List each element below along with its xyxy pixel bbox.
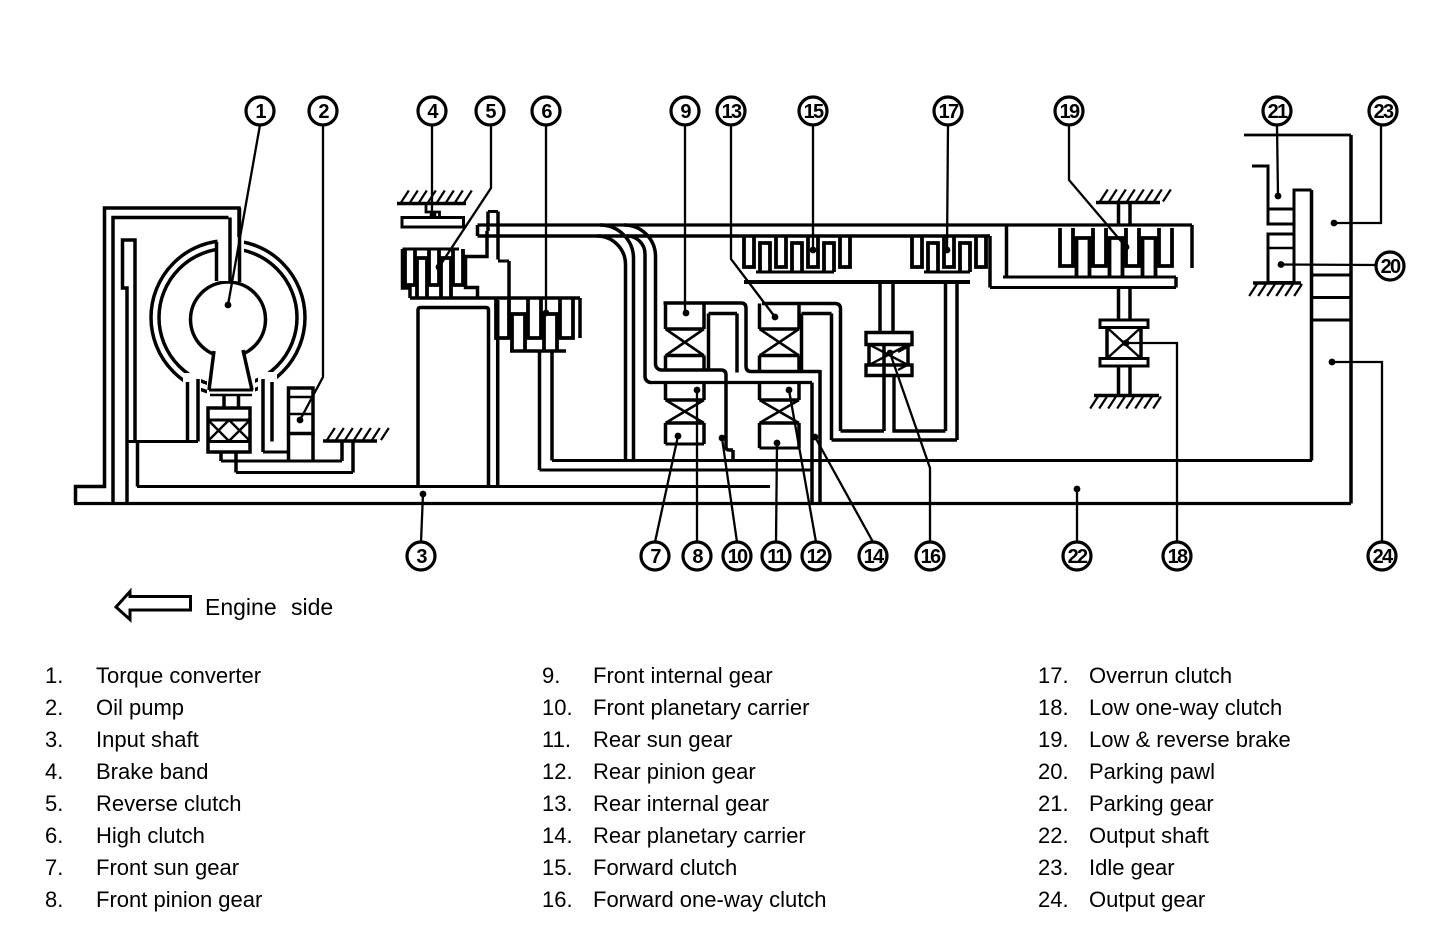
svg-text:Forward one-way clutch: Forward one-way clutch bbox=[593, 887, 827, 912]
svg-text:Rear internal gear: Rear internal gear bbox=[593, 791, 769, 816]
svg-text:17: 17 bbox=[939, 101, 959, 123]
svg-text:Forward clutch: Forward clutch bbox=[593, 855, 737, 880]
svg-text:20: 20 bbox=[1381, 256, 1401, 278]
svg-text:15: 15 bbox=[804, 101, 824, 123]
svg-text:18: 18 bbox=[1168, 546, 1188, 568]
svg-text:2.: 2. bbox=[45, 695, 63, 720]
svg-text:Overrun clutch: Overrun clutch bbox=[1089, 663, 1232, 688]
svg-text:Front planetary carrier: Front planetary carrier bbox=[593, 695, 809, 720]
svg-text:Front pinion gear: Front pinion gear bbox=[96, 887, 262, 912]
svg-text:24.: 24. bbox=[1038, 887, 1069, 912]
svg-text:10.: 10. bbox=[542, 695, 573, 720]
svg-text:Torque converter: Torque converter bbox=[96, 663, 261, 688]
svg-text:15.: 15. bbox=[542, 855, 573, 880]
svg-text:8.: 8. bbox=[45, 887, 63, 912]
svg-text:22.: 22. bbox=[1038, 823, 1069, 848]
svg-text:19.: 19. bbox=[1038, 727, 1069, 752]
svg-text:Reverse clutch: Reverse clutch bbox=[96, 791, 242, 816]
svg-text:Front internal gear: Front internal gear bbox=[593, 663, 773, 688]
svg-text:Low & reverse brake: Low & reverse brake bbox=[1089, 727, 1291, 752]
svg-text:Front sun gear: Front sun gear bbox=[96, 855, 239, 880]
svg-text:4.: 4. bbox=[45, 759, 63, 784]
svg-text:Input shaft: Input shaft bbox=[96, 727, 199, 752]
svg-text:Rear sun gear: Rear sun gear bbox=[593, 727, 732, 752]
svg-text:23.: 23. bbox=[1038, 855, 1069, 880]
svg-text:21.: 21. bbox=[1038, 791, 1069, 816]
svg-text:Engine side: Engine side bbox=[205, 594, 333, 620]
svg-text:High clutch: High clutch bbox=[96, 823, 205, 848]
svg-text:Idle gear: Idle gear bbox=[1089, 855, 1175, 880]
svg-text:Output gear: Output gear bbox=[1089, 887, 1205, 912]
svg-text:Rear pinion gear: Rear pinion gear bbox=[593, 759, 756, 784]
svg-text:20.: 20. bbox=[1038, 759, 1069, 784]
svg-text:17.: 17. bbox=[1038, 663, 1069, 688]
svg-text:12.: 12. bbox=[542, 759, 573, 784]
svg-text:Output shaft: Output shaft bbox=[1089, 823, 1209, 848]
svg-text:1.: 1. bbox=[45, 663, 63, 688]
svg-text:Parking pawl: Parking pawl bbox=[1089, 759, 1215, 784]
svg-text:Low one-way clutch: Low one-way clutch bbox=[1089, 695, 1282, 720]
svg-text:22: 22 bbox=[1068, 546, 1088, 568]
svg-text:18.: 18. bbox=[1038, 695, 1069, 720]
svg-text:10: 10 bbox=[728, 546, 748, 568]
svg-text:14.: 14. bbox=[542, 823, 573, 848]
svg-text:9.: 9. bbox=[542, 663, 560, 688]
svg-text:16.: 16. bbox=[542, 887, 573, 912]
svg-text:19: 19 bbox=[1060, 101, 1080, 123]
svg-text:21: 21 bbox=[1268, 101, 1288, 123]
svg-text:Oil pump: Oil pump bbox=[96, 695, 184, 720]
svg-text:Brake band: Brake band bbox=[96, 759, 209, 784]
svg-text:12: 12 bbox=[807, 546, 827, 568]
svg-text:24: 24 bbox=[1373, 546, 1394, 568]
svg-text:6.: 6. bbox=[45, 823, 63, 848]
svg-text:13: 13 bbox=[722, 101, 742, 123]
svg-text:Parking gear: Parking gear bbox=[1089, 791, 1214, 816]
svg-text:11: 11 bbox=[767, 546, 786, 568]
svg-text:16: 16 bbox=[921, 546, 941, 568]
svg-text:11.: 11. bbox=[542, 727, 571, 752]
svg-text:23: 23 bbox=[1374, 101, 1394, 123]
svg-text:13.: 13. bbox=[542, 791, 573, 816]
svg-text:Rear planetary carrier: Rear planetary carrier bbox=[593, 823, 806, 848]
svg-text:14: 14 bbox=[864, 546, 885, 568]
svg-text:5.: 5. bbox=[45, 791, 63, 816]
svg-text:7.: 7. bbox=[45, 855, 63, 880]
svg-text:3.: 3. bbox=[45, 727, 63, 752]
